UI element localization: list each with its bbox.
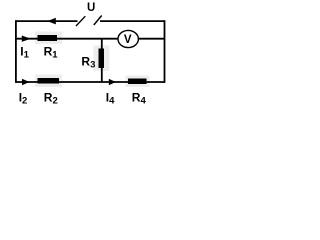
current arrow on top wire (points left) [47,18,56,25]
resistor R3 body [99,49,105,69]
current arrow I4 (points right) [109,79,116,85]
resistor R1 highlight box [35,32,62,45]
resistor R2 body [38,78,60,84]
switch U blade left [76,16,85,26]
svg-text:U: U [87,2,95,14]
resistor R3 highlight box [94,46,110,72]
wire: top-left segment of top side [16,20,78,22]
current arrow I1 (points right) [22,36,31,42]
wire: left side [15,20,17,83]
svg-text:V: V [124,34,132,46]
wire: right side [164,20,166,83]
resistor R4 body [128,79,147,85]
voltmeter V [118,30,138,47]
switch U blade right [94,16,102,26]
wire: top-right segment of top side [100,20,165,22]
resistor R2 highlight box [35,75,62,88]
resistor R4 highlight box [126,76,150,88]
wire: bottom side [16,81,165,83]
wire: middle vertical branch with R3 [101,39,103,82]
current arrow I2 (points right) [22,79,30,85]
wire: middle row with R1 and voltmeter [16,38,165,40]
resistor R1 body [38,35,58,41]
